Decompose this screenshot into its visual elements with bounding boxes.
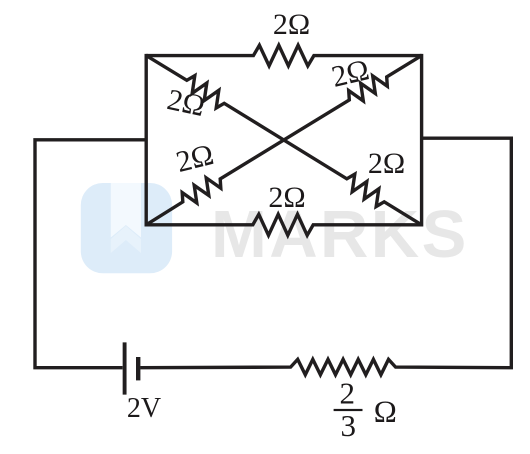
wire left lead from node A to outer loop	[35, 140, 146, 368]
wire bottom edge of bridge box with resistor R6	[146, 214, 421, 235]
svg-text:2Ω: 2Ω	[164, 83, 207, 123]
svg-text:2Ω: 2Ω	[173, 138, 217, 179]
label R7 fraction bar	[334, 409, 363, 411]
diagonal wire BL to TR with resistors R3 and R4	[146, 56, 421, 225]
wire top edge of bridge box with resistor R1	[146, 45, 421, 66]
svg-text:2Ω: 2Ω	[273, 8, 310, 41]
wire right edge of bridge box	[420, 54, 423, 227]
battery B1 short plate (negative)	[136, 357, 140, 380]
watermark logo	[81, 183, 172, 273]
svg-text:3: 3	[340, 408, 356, 443]
svg-text:Ω: Ω	[374, 394, 397, 429]
diagonal wire TL to BR with resistors R2 and R5	[146, 56, 421, 225]
svg-text:MARKS: MARKS	[211, 197, 469, 272]
svg-text:2Ω: 2Ω	[368, 147, 405, 180]
wire left edge of bridge box	[144, 54, 147, 227]
svg-text:2Ω: 2Ω	[268, 181, 305, 214]
wire bottom and right outer loop with resistor R7	[140, 138, 511, 375]
battery B1 long plate (positive)	[123, 342, 127, 394]
svg-text:2: 2	[339, 375, 355, 410]
svg-text:2V: 2V	[127, 393, 161, 424]
